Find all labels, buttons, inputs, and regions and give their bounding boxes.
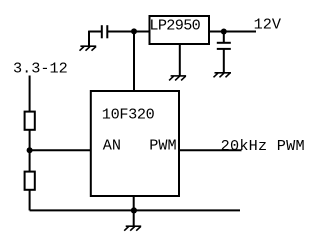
wire: U1 ground pin down [179,44,181,76]
node: junction top rail to U2 [131,28,137,34]
ground (bottom) [124,226,141,231]
regulator U1 LP2950 [150,16,210,44]
wire: C1 left down to ground [88,31,90,46]
mcu U2 10F320 [91,91,179,196]
wire: bottom rail [30,209,240,211]
wire: U2 bottom pin to rail and ground [133,196,135,226]
node: bottom junction [131,207,137,213]
wire: divider to AN pin [30,149,91,151]
wire: C1 to U1 input [108,31,150,33]
svg-text:10F320: 10F320 [102,105,155,123]
wire: 3.3-12 input down to R1 [29,76,31,112]
capacitor C1 [102,25,108,38]
svg-text:AN: AN [103,136,121,154]
svg-text:PWM: PWM [149,136,176,154]
ground (below C2) [214,73,232,78]
svg-text:12V: 12V [254,16,282,34]
wire: junction down to C2 [223,32,225,43]
wire: C2 down to ground [223,49,225,73]
wire: junction down to U2 top [133,32,135,92]
wire: top rail left segment to C1 [89,31,101,33]
node: divider junction [27,147,33,153]
node: 12V junction [221,29,227,35]
resistor R2 [25,172,35,190]
wire: U1 output to 12V [209,31,256,33]
wire: R2 down to bottom rail [29,191,31,211]
wire: PWM output [179,149,242,151]
ground (near C1) [80,46,97,51]
wire: R1 to R2 [29,131,31,172]
ground (below U1) [169,76,186,81]
svg-text:20kHz PWM: 20kHz PWM [221,137,305,155]
svg-text:LP2950: LP2950 [149,17,200,35]
svg-text:3.3-12: 3.3-12 [13,59,68,77]
capacitor C2 [217,43,231,49]
resistor R1 [25,112,35,130]
